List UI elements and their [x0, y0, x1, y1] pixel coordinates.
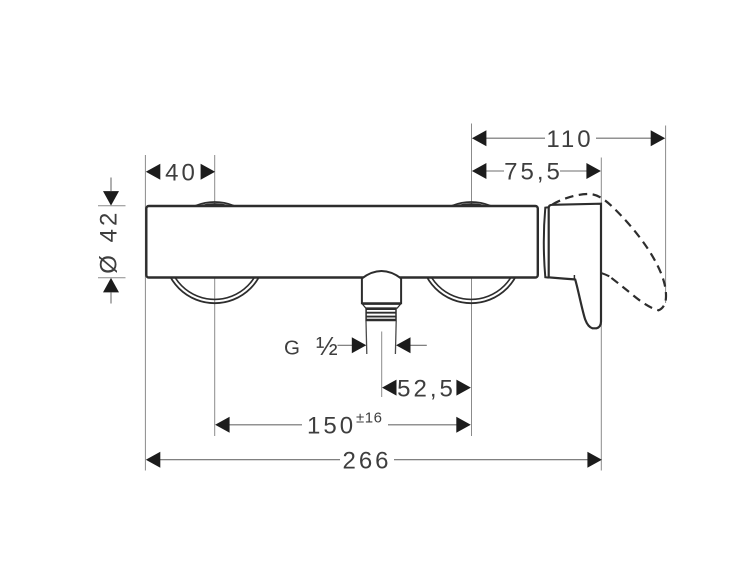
right escutcheon inner circle [424, 206, 518, 300]
handle connector ring [544, 207, 549, 277]
lever far-edge solid curve [601, 273, 609, 276]
right escutcheon outer circle [421, 202, 522, 303]
dim 150±16: line and arrows [229, 424, 302, 426]
right escutcheon top rim arc [455, 204, 488, 207]
svg-text:40: 40 [165, 160, 198, 187]
extension line dashed-handle extent (x=665.6) [665, 126, 667, 304]
left escutcheon outer circle [164, 202, 265, 303]
dim G 1/2: left arrow [338, 344, 353, 346]
dim Ø42: top arrow and tick [110, 178, 112, 192]
dim G 1/2: right arrow [410, 344, 427, 346]
svg-text:½: ½ [316, 331, 338, 361]
lever pivot spike [573, 275, 575, 279]
dim 52,5: arrows [382, 380, 397, 396]
dim 40: arrows [146, 164, 161, 180]
extension line right escutcheon center (x=471.5) [471, 124, 473, 437]
svg-text:G: G [284, 337, 300, 360]
extension line handle right edge (x=601.3) [600, 158, 602, 471]
extension line left escutcheon center (x=214.7) [214, 155, 216, 436]
outlet center line (x=381.7) [381, 332, 383, 398]
svg-text:75,5: 75,5 [504, 159, 563, 186]
dim 110: line and arrows [486, 137, 545, 139]
outlet dome (hose connection) [362, 271, 401, 303]
outlet step below dome [363, 304, 401, 308]
svg-text:266: 266 [342, 447, 391, 474]
svg-text:52,5: 52,5 [397, 375, 456, 402]
svg-text:150: 150 [307, 413, 356, 440]
outlet thread G1/2 [366, 308, 396, 320]
left escutcheon top rim arc [198, 204, 231, 207]
extension line left (x=145.4, bar left edge / 40 dim / 266 dim) [144, 155, 146, 471]
dim 266: line and arrows [160, 459, 340, 461]
svg-text:±16: ±16 [356, 410, 382, 427]
dim 75,5: line and arrows [486, 170, 504, 172]
dashed handle (raised position) [553, 194, 667, 310]
svg-text:Ø 42: Ø 42 [96, 210, 123, 274]
thread ridge lines [366, 309, 396, 320]
outlet pipe walls [366, 321, 396, 354]
handle body with lever [549, 204, 601, 329]
svg-text:110: 110 [546, 126, 593, 153]
mixer bar body [146, 206, 538, 278]
dim Ø42: bottom arrow and tick [110, 293, 112, 304]
left escutcheon inner circle [168, 206, 262, 300]
